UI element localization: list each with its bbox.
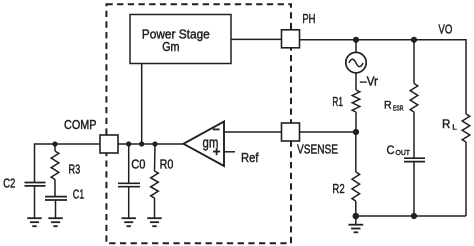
svg-text:VO: VO [438,22,452,37]
wire R0 to ground [154,198,156,218]
svg-text:R3: R3 [69,162,81,176]
svg-text:ESR: ESR [393,104,404,113]
wire R0 branch from COMP rail [154,144,157,171]
pin PH [282,30,300,48]
node junction dot VO rail at Vr branch [353,37,359,43]
node junction dot R0 branch [152,141,157,146]
node junction dot R3 branch [52,141,57,146]
label RESR [384,100,404,113]
voltage source -Vr [346,40,366,90]
node junction dot ground rail at COUT [411,213,417,219]
svg-text:R2: R2 [332,182,344,196]
svg-text:R0: R0 [160,158,174,172]
svg-text:L: L [452,123,457,132]
wire RESR branch from VO rail [413,40,415,84]
wire VSENSE node to R2 [355,132,357,172]
ground symbol right [348,216,363,232]
node junction dot ground rail at R2 [353,213,360,220]
svg-text:C2: C2 [3,177,15,191]
wire R3 branch from COMP rail [54,144,56,151]
wire gm inverting input to VSENSE pin [224,131,281,133]
node junction dot C0 branch [126,141,131,146]
wire R2 to ground rail [355,201,357,216]
resistor R0 [151,171,159,198]
wire top rail PH to RL corner [299,40,466,114]
power stage block U1 "Power Stage Gm" [130,15,231,64]
svg-text:PH: PH [302,12,315,26]
wire R1 to VSENSE node [355,112,357,132]
svg-text:–Vr: –Vr [360,75,378,89]
svg-text:VSENSE: VSENSE [297,142,338,156]
resistor RESR [410,84,418,113]
resistor R2 [352,172,360,201]
svg-text:OUT: OUT [396,148,411,157]
svg-text:C: C [387,145,395,157]
wire gm noninverting input Ref stub [224,151,235,153]
ground symbol below C1 [48,218,62,226]
pin VSENSE [282,123,300,141]
label COUT [387,145,411,157]
ground symbol below C0 [122,218,136,226]
svg-text:R1: R1 [332,95,343,109]
wire C0 to ground [128,187,130,219]
capacitor C0 [118,183,140,186]
resistor R1 [352,90,360,112]
svg-text:C0: C0 [131,158,145,172]
capacitor COUT [404,158,425,161]
resistor R3 [51,151,59,180]
ground symbol below R0 [147,218,161,226]
IC boundary dashed box [106,4,291,243]
node junction dot VO rail at RESR branch [411,37,417,43]
wire C0 branch from COMP rail [128,144,130,183]
wire COUT to ground rail [413,162,415,216]
wire power stage bottom to COMP rail [141,64,143,145]
svg-text:COMP: COMP [64,118,97,132]
svg-text:R: R [442,117,451,131]
svg-text:Gm: Gm [162,39,179,54]
svg-text:Ref: Ref [241,151,259,165]
bottom ground rail wire [356,215,466,217]
wire gm output to COMP rail [118,143,184,145]
wire R3 to C1 [54,180,56,197]
wire power stage output to PH pin [231,38,281,40]
svg-text:R: R [384,100,392,112]
wire RL to ground rail [465,142,467,216]
node junction dot power stage feedback [139,141,144,146]
wire VSENSE pin to divider node [299,131,356,133]
label RL [442,117,457,132]
wire C2 to ground [34,186,36,218]
svg-text:C1: C1 [73,187,85,201]
wire RESR to COUT [413,112,415,158]
wire COMP to C2 [35,144,101,182]
capacitor C1 [45,197,67,200]
node junction dot VSENSE divider [353,129,359,135]
ground symbol below C2 [27,218,41,226]
op-amp gm error amplifier [184,122,225,167]
wire C1 to ground [55,200,57,218]
resistor RL [462,114,470,142]
pin COMP [100,135,118,153]
capacitor C2 [25,183,46,186]
svg-text:gm: gm [203,135,219,151]
